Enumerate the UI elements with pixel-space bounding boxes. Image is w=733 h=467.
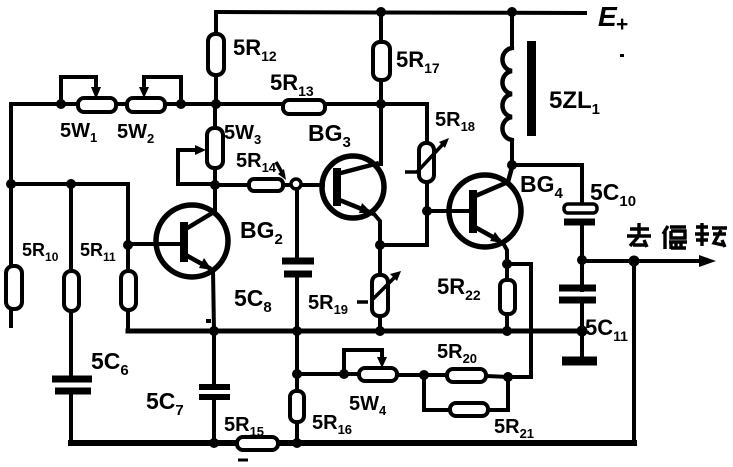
node junction deflection branch: [629, 256, 640, 267]
node terminal circle at BG3 base: [291, 179, 301, 189]
node junction y374 x297: [292, 369, 302, 379]
resistor 5R15 on bottom rail: [237, 437, 278, 460]
wire emitter bypass right branch: [507, 264, 531, 377]
wire top supply rail: [216, 12, 585, 13]
label 5C7: [146, 388, 184, 419]
potentiometer 5W1: [61, 77, 116, 112]
transistor BG2: [128, 185, 228, 331]
trimmer 5R18: [405, 104, 449, 211]
label 5ZL1: [549, 87, 600, 118]
capacitor 5C6: [52, 379, 92, 443]
resistor 5R16: [290, 374, 304, 443]
trimmer 5R19: [371, 245, 401, 331]
wire BG2 base column x=128: [126, 184, 130, 245]
label E+ supply: [598, 1, 628, 57]
wire BG3 collector: [379, 104, 383, 164]
label 5C6: [91, 348, 129, 379]
resistor 5R12: [208, 12, 224, 104]
node junction main bus x=216: [211, 99, 221, 109]
resistor 5R14: [215, 162, 291, 191]
node junction coil bottom / BG4 collector: [507, 160, 517, 170]
node junction BG4 emitter: [502, 259, 512, 269]
label 5R10: [22, 240, 59, 264]
label 5W3: [224, 122, 261, 147]
label 5R11: [80, 240, 116, 264]
node junction mid rail x=507: [502, 326, 512, 336]
inductor 5ZL1 coil: [502, 12, 512, 165]
capacitor 5C5 (5C8): [282, 189, 314, 331]
wire pair right to bypass: [508, 375, 531, 379]
label 5R15: [224, 414, 264, 439]
resistor below BG2 base: [121, 245, 136, 331]
label 5R18: [435, 109, 475, 134]
node junction 5R17 top rail: [376, 7, 386, 17]
label 5R21: [494, 416, 534, 441]
node junction 5W2 right: [176, 99, 186, 109]
wire left column x=11: [9, 104, 13, 326]
wire 5R16 branch top: [295, 331, 299, 374]
inductor core bar: [527, 41, 536, 136]
resistor 5R17: [373, 12, 390, 104]
wire main horizontal bus y=104: [11, 102, 427, 106]
label BG2: [240, 217, 283, 248]
resistor 5R13: [283, 100, 325, 114]
resistor 5R20: [447, 369, 508, 382]
wire coil node to 5C10: [512, 165, 582, 205]
label 5W1: [60, 120, 97, 145]
node junction coil top rail: [507, 7, 517, 17]
node N1 junction 5W3 bottom / BG2 collector: [210, 180, 220, 190]
label 5R17: [396, 47, 440, 76]
label 5C10: [590, 179, 636, 210]
node junction 5R17 bottom / main bus: [376, 99, 386, 109]
label 5R13: [270, 70, 314, 99]
label 5R12: [233, 35, 277, 64]
capacitor 5C10 electrolytic: [564, 204, 597, 259]
label BG3: [308, 120, 351, 151]
label 5C8: [234, 285, 272, 316]
wire bottom rail: [71, 440, 634, 446]
node junction left rail: [6, 179, 16, 189]
resistor 5R11: [64, 184, 79, 377]
node junction 5W1 left: [56, 99, 66, 109]
node junction BG4 base: [422, 206, 432, 216]
wire right column down: [632, 261, 636, 443]
svg-text:E: E: [598, 1, 618, 32]
label 5R14: [236, 150, 277, 175]
node junction BG3 emitter: [375, 240, 385, 250]
transistor BG4: [427, 167, 521, 264]
resistor 5R21: [424, 375, 508, 416]
wire node to BG3 base: [302, 183, 323, 187]
wire mid rail y=331: [128, 329, 582, 334]
node junction bottom rail x=297: [292, 438, 302, 448]
wire BG3 emitter to BG4 base: [380, 211, 427, 245]
node junction BG2 base: [123, 240, 133, 250]
resistor 5R22: [500, 264, 515, 331]
label BG4: [520, 171, 564, 202]
label 5R20: [437, 341, 477, 366]
label 5C11: [585, 315, 628, 344]
node junction mid rail x=297: [292, 326, 302, 336]
wire output arrow to deflection: [582, 255, 716, 267]
svg-text:+: +: [616, 13, 628, 36]
transistor BG3: [322, 156, 384, 245]
label 去偏转 (to deflection): [627, 223, 727, 249]
node junction 5W4 wiper: [339, 369, 349, 379]
node junction parallel pair right: [503, 372, 513, 382]
scan speck: [206, 319, 211, 323]
node junction 5C11 / mid rail: [577, 326, 588, 337]
label 5W2: [117, 121, 154, 146]
node junction bottom rail x=214: [209, 438, 219, 448]
node junction parallel pair left: [419, 370, 429, 380]
wire left horizontal y=184: [11, 182, 128, 186]
label 5R19: [308, 292, 368, 317]
resistor 5R10: [6, 266, 22, 309]
label 5W4: [349, 393, 387, 418]
label 5R16: [312, 412, 352, 437]
capacitor 5C11: [559, 261, 597, 361]
potentiometer 5W2: [127, 77, 181, 112]
node junction mid rail x=214: [209, 326, 219, 336]
potentiometer 5W3: [178, 104, 223, 185]
capacitor 5C7: [199, 331, 230, 443]
node junction output: [577, 255, 587, 265]
node junction 5R11 top: [66, 179, 76, 189]
potentiometer 5W4: [297, 350, 448, 381]
node junction mid rail x=380: [375, 326, 385, 336]
label 5R22: [437, 274, 481, 303]
